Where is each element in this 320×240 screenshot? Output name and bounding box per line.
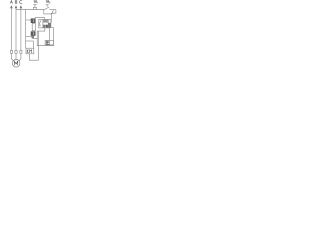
wire rail to contact block (26, 19, 31, 21)
wire rail lower branch (26, 40, 34, 42)
spring column box (49, 28, 53, 45)
wire armature contact down (33, 37, 37, 39)
wire phase A vertical (10, 8, 12, 51)
contactor KM moving contact block (31, 19, 35, 23)
control tap wire from phase B (16, 9, 45, 11)
phase label C (20, 0, 23, 3)
label SB2 (46, 0, 50, 3)
wire right column down (51, 10, 56, 23)
wire rail to armature contact (26, 35, 32, 37)
thermal relay FR heater element phase C (20, 50, 22, 53)
phase label A (10, 1, 12, 4)
supply arrow phase A (10, 5, 13, 8)
control wire left rail (25, 10, 27, 49)
wire coil bottom return loop (29, 31, 38, 60)
motor M (12, 60, 20, 68)
wire phase B to motor (15, 54, 17, 60)
phase label B (15, 1, 17, 4)
wire contact block over to body (35, 18, 44, 20)
auxiliary block window pane (46, 41, 49, 44)
contactor body box (39, 19, 51, 28)
label SB1 (34, 0, 37, 3)
wire phase B vertical (15, 8, 17, 51)
stop pushbutton SB1 (NC) (33, 4, 36, 6)
start pushbutton SB2 (NO) (46, 4, 49, 6)
KM auxiliary self-lock contact branch (44, 10, 52, 14)
contactor blade (39, 20, 41, 25)
supply arrow phase C (20, 5, 23, 8)
wire phase C vertical (20, 8, 22, 51)
wire phase C to motor (19, 54, 21, 62)
wire phase A to motor (11, 54, 13, 62)
contactor coil window (32, 23, 35, 31)
contactor core block (31, 32, 35, 36)
wire SB2 to corner (49, 9, 56, 11)
auxiliary block KM (45, 40, 53, 45)
wire lower branch to coil top (33, 41, 35, 48)
thermal relay FR heater element phase A (10, 50, 12, 53)
supply arrow phase B (15, 5, 18, 8)
thermal relay FR heater element phase B (15, 50, 17, 53)
contactor coil KM (26, 48, 34, 54)
armature contact box (32, 36, 34, 39)
wire contactor body to staircase (37, 28, 54, 46)
